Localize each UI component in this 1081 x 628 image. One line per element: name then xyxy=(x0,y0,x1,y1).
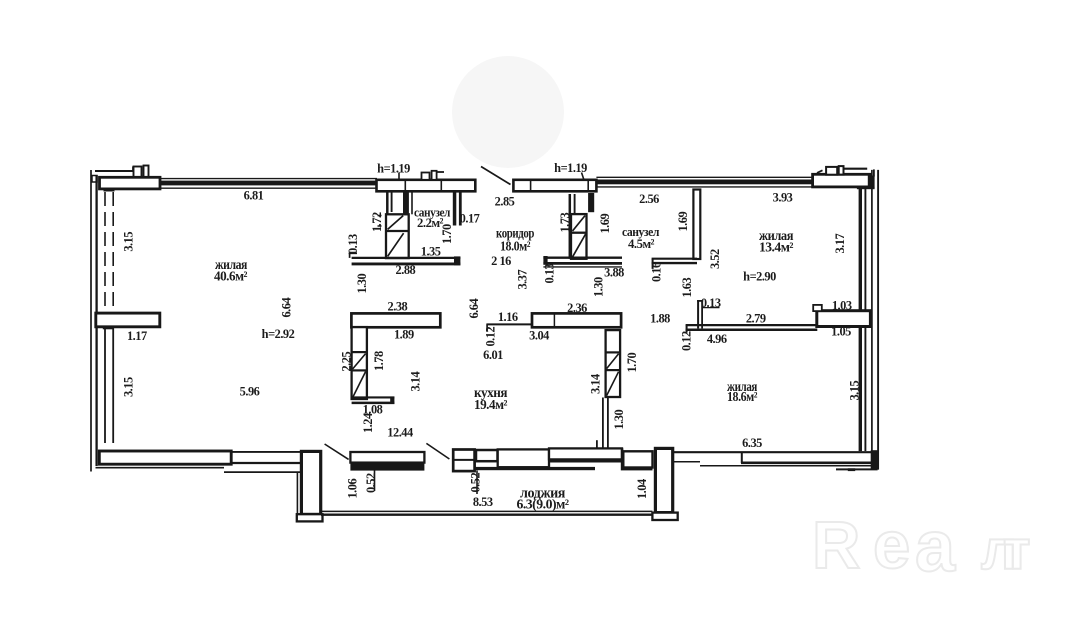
svg-text:1.88: 1.88 xyxy=(650,312,670,326)
svg-text:13.4м²: 13.4м² xyxy=(759,240,793,255)
svg-text:18.0м²: 18.0м² xyxy=(500,239,530,254)
svg-text:1.30: 1.30 xyxy=(612,410,626,430)
svg-text:18.6м²: 18.6м² xyxy=(727,389,757,404)
svg-text:2.88: 2.88 xyxy=(396,263,416,277)
svg-text:3.15: 3.15 xyxy=(121,232,135,252)
svg-text:2.56: 2.56 xyxy=(639,192,659,206)
svg-text:1.69: 1.69 xyxy=(676,212,690,232)
svg-text:h=2.90: h=2.90 xyxy=(743,269,776,283)
svg-text:2.25: 2.25 xyxy=(339,352,353,372)
svg-text:1.70: 1.70 xyxy=(440,224,454,244)
svg-text:6.64: 6.64 xyxy=(279,298,293,318)
svg-text:1.89: 1.89 xyxy=(394,328,414,342)
svg-text:3.14: 3.14 xyxy=(588,374,602,394)
svg-text:0.17: 0.17 xyxy=(460,212,480,226)
svg-text:5.96: 5.96 xyxy=(240,385,260,399)
svg-text:12.44: 12.44 xyxy=(387,426,413,440)
svg-text:1.78: 1.78 xyxy=(372,351,386,371)
svg-text:1.30: 1.30 xyxy=(355,274,369,294)
svg-text:3.17: 3.17 xyxy=(833,234,847,254)
svg-text:0.12: 0.12 xyxy=(483,327,497,347)
svg-text:6.64: 6.64 xyxy=(467,299,481,319)
svg-text:1.70: 1.70 xyxy=(625,353,639,373)
svg-text:3.93: 3.93 xyxy=(773,191,793,205)
svg-text:3.37: 3.37 xyxy=(515,270,529,290)
svg-text:1.03: 1.03 xyxy=(832,299,852,313)
svg-text:0.12: 0.12 xyxy=(679,331,693,351)
svg-text:0.16: 0.16 xyxy=(649,262,663,282)
svg-text:0.13: 0.13 xyxy=(701,296,721,310)
svg-text:1.06: 1.06 xyxy=(345,479,359,499)
svg-text:1.24: 1.24 xyxy=(361,413,375,433)
svg-text:4.96: 4.96 xyxy=(707,332,727,346)
svg-text:1.04: 1.04 xyxy=(635,479,649,499)
svg-text:h=1.19: h=1.19 xyxy=(377,162,410,176)
svg-text:1.72: 1.72 xyxy=(370,212,384,232)
svg-text:40.6м²: 40.6м² xyxy=(214,269,247,284)
svg-text:0.13: 0.13 xyxy=(542,264,556,284)
svg-text:1.73: 1.73 xyxy=(558,213,572,233)
svg-text:1.05: 1.05 xyxy=(831,325,851,339)
svg-text:2.79: 2.79 xyxy=(746,312,766,326)
svg-text:3.52: 3.52 xyxy=(708,249,722,269)
svg-text:3.88: 3.88 xyxy=(604,266,624,280)
svg-text:h=1.19: h=1.19 xyxy=(554,161,587,175)
svg-text:2.38: 2.38 xyxy=(388,300,408,314)
svg-text:e: e xyxy=(873,508,910,583)
svg-text:h=2.92: h=2.92 xyxy=(262,327,295,341)
svg-text:3.15: 3.15 xyxy=(847,381,861,401)
svg-text:2.36: 2.36 xyxy=(567,301,587,315)
svg-text:т: т xyxy=(1003,518,1030,581)
svg-text:1.16: 1.16 xyxy=(498,310,518,324)
svg-text:1.69: 1.69 xyxy=(598,214,612,234)
svg-text:0.52: 0.52 xyxy=(468,473,482,493)
svg-text:a: a xyxy=(915,507,956,587)
svg-text:6.81: 6.81 xyxy=(244,189,264,203)
svg-text:8.53: 8.53 xyxy=(473,495,493,509)
svg-text:19.4м²: 19.4м² xyxy=(474,397,507,412)
svg-text:1.63: 1.63 xyxy=(680,278,694,298)
svg-text:6.01: 6.01 xyxy=(483,348,503,362)
svg-text:1.30: 1.30 xyxy=(591,277,605,297)
svg-text:3.15: 3.15 xyxy=(121,377,135,397)
svg-text:3.04: 3.04 xyxy=(529,329,549,343)
svg-text:6.35: 6.35 xyxy=(742,436,762,450)
svg-text:2.85: 2.85 xyxy=(495,195,515,209)
svg-text:4.5м²: 4.5м² xyxy=(628,236,655,251)
svg-text:1.17: 1.17 xyxy=(127,329,147,343)
svg-text:R: R xyxy=(812,508,860,583)
svg-text:3.14: 3.14 xyxy=(408,372,422,392)
svg-text:0.52: 0.52 xyxy=(364,473,378,493)
svg-text:0.13: 0.13 xyxy=(346,234,360,254)
svg-text:2 16: 2 16 xyxy=(491,254,511,268)
svg-text:1.35: 1.35 xyxy=(421,245,441,259)
svg-text:6.3(9.0)м²: 6.3(9.0)м² xyxy=(517,497,569,512)
